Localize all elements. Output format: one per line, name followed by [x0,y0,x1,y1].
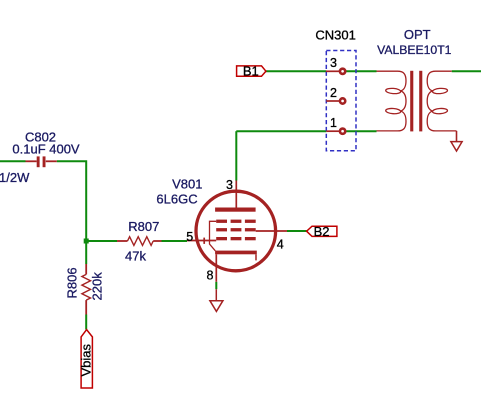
svg-text:6L6GC: 6L6GC [156,192,197,207]
transformer OPT primary winding [377,71,407,131]
wire: node A down to R806 [85,241,87,264]
net flag Vbias [81,330,92,388]
CN301 pin 1 pad ring [340,129,345,134]
svg-text:220k: 220k [90,272,105,301]
wire: CN301 pin 1 to transformer primary bottom [346,130,376,132]
svg-text:B2: B2 [314,224,330,239]
capacitor C802 leads [26,160,57,162]
wire: B1 flag to CN301 pin 3 [266,70,326,72]
V801 pin 5 lead (control grid) [187,240,216,242]
V801 grid row 1 dashes [216,220,256,223]
svg-text:3: 3 [330,56,337,70]
CN301 pin 2 pad ring [340,98,345,103]
net flag B2 [307,226,337,236]
svg-text:Vbias: Vbias [79,343,94,376]
V801 grid row 2 dashes [216,228,256,231]
svg-text:OPT: OPT [404,27,431,42]
V801 grid row 3 dashes [216,237,256,240]
capacitor C802 plates [37,156,46,167]
tube V801 envelope circle [196,191,276,271]
CN301 pin 3 stub [326,70,339,72]
svg-text:CN301: CN301 [315,28,355,43]
svg-text:B1: B1 [243,64,259,79]
connector CN301 dashed box [326,51,356,151]
V801 anode lead to pin 3 [235,181,237,208]
svg-text:R807: R807 [128,219,159,234]
svg-text:47k: 47k [125,249,146,264]
svg-text:0.1uF 400V: 0.1uF 400V [12,142,80,157]
svg-text:R806: R806 [65,267,80,298]
wire: corner down to tube pin 3 (anode) [235,131,237,180]
wire: corner node to CN301 pin 1 [236,130,326,132]
ground below transformer [451,142,462,151]
svg-text:3: 3 [226,178,233,192]
wire: R806 to Vbias flag [85,315,87,330]
V801 pin 4 tick [274,228,276,234]
ground below tube pin 8 [210,289,223,311]
CN301 pin 2 stub [326,100,339,102]
svg-text:1: 1 [330,116,337,130]
svg-text:V801: V801 [172,177,202,192]
svg-text:VALBEE10T1: VALBEE10T1 [377,43,452,57]
V801 cathode hook [255,254,257,260]
wire: tube pin 4 to B2 flag [287,230,307,232]
svg-text:2: 2 [330,86,337,100]
svg-text:1/2W: 1/2W [0,170,30,185]
wire: transformer secondary top to right edge [452,70,481,72]
V801 pin 4 lead (screen grid) [256,230,287,232]
transformer OPT core bars [410,71,422,132]
wire: left edge to C802 [0,160,26,162]
wire: tube pin 8 to ground [215,282,217,289]
net flag B1 [237,66,266,76]
transformer OPT secondary winding [427,71,456,131]
resistor R807 [117,237,162,246]
svg-text:8: 8 [207,268,214,282]
junction node A [84,239,89,244]
transformer OPT secondary bottom lead to ground [456,131,458,142]
resistor R806 [82,264,91,315]
wire: CN301 pin 3 to transformer primary top [346,70,376,72]
svg-text:5: 5 [186,230,193,244]
CN301 pin 1 stub [326,130,339,132]
wire: node A to R807 [86,240,117,242]
V801 cathode lead to pin 8 [215,254,217,281]
V801 cathode bar [215,251,257,255]
V801 pin 5 tick [203,238,205,244]
wire: C802 right to corner and down to node A [57,161,86,241]
svg-text:4: 4 [277,237,284,251]
V801 pin 3 tick [231,190,243,192]
V801 beam plate bracket [210,221,217,251]
wire: R807 to tube pin 5 [162,240,188,242]
V801 anode plate bar [215,208,256,212]
CN301 pin 3 pad ring [340,69,345,74]
